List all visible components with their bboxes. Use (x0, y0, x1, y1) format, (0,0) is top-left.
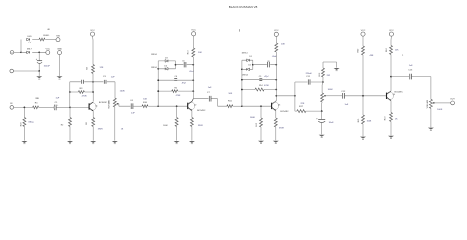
svg-text:BC549C: BC549C (395, 91, 404, 93)
ground (174, 141, 180, 144)
ground (258, 141, 264, 144)
svg-text:SUSTAIN: SUSTAIN (107, 100, 110, 109)
svg-text:.05uF: .05uF (189, 71, 195, 73)
ground (36, 76, 42, 79)
node junction pot top (322, 81, 324, 83)
svg-text:C6: C6 (175, 76, 178, 78)
svg-text:.05uF: .05uF (272, 56, 278, 58)
wire (133, 105, 142, 107)
wire (14, 106, 33, 108)
node junction (192, 64, 194, 66)
transistor Q3 BC549C (271, 101, 289, 113)
svg-text:C9: C9 (259, 76, 262, 78)
wire pot bottom (321, 102, 323, 111)
capacitor C9 47pf (259, 75, 269, 81)
capacitor C8 0.05uF (267, 56, 278, 68)
node VCC circle (45, 49, 50, 55)
wire diode box right rail (252, 60, 254, 69)
svg-text:BC549C: BC549C (99, 102, 108, 104)
jack OUT circle (450, 99, 455, 105)
node junction (192, 79, 194, 81)
svg-text:1uF: 1uF (208, 87, 212, 89)
svg-text:Q1: Q1 (95, 106, 97, 108)
wire right rail stage3 (272, 52, 276, 104)
wire (39, 106, 54, 108)
wire collector rail (92, 74, 94, 102)
capacitor C12 1uF (341, 91, 349, 106)
wire (23, 127, 25, 141)
resistor R18 12K (386, 46, 399, 55)
wire bass branch (295, 96, 322, 111)
wire emitter (191, 111, 193, 118)
svg-text:C8: C8 (267, 61, 270, 63)
svg-text:100K: 100K (367, 121, 372, 123)
svg-text:1uF: 1uF (131, 112, 135, 114)
node junction (92, 91, 94, 93)
resistor R9 390R (190, 118, 203, 127)
wire (21, 51, 46, 53)
wire (233, 105, 242, 107)
tick mark (238, 29, 240, 31)
resistor R1 39K (33, 98, 40, 109)
wire left rail stage1 (69, 82, 71, 108)
node junction (176, 105, 178, 107)
svg-text:1Meg: 1Meg (28, 122, 33, 124)
node VCC circle stage1 (90, 30, 95, 36)
svg-text:VCC: VCC (389, 30, 394, 32)
resistor RLED 4K (39, 29, 50, 41)
node junction (275, 89, 277, 91)
resistor R19 1K (385, 113, 399, 122)
wire (362, 36, 364, 46)
wire pot bottom (430, 108, 432, 127)
capacitor C10 electrolytic (316, 117, 334, 123)
node junction (69, 91, 71, 93)
resistor R5 390R (86, 118, 103, 131)
svg-text:470K: 470K (264, 85, 269, 87)
svg-text:1K: 1K (121, 129, 124, 131)
svg-text:2K2: 2K2 (327, 75, 331, 77)
svg-text:R10: R10 (143, 102, 148, 104)
svg-text:C4: C4 (130, 100, 134, 102)
svg-text:R13: R13 (188, 50, 190, 55)
wire (362, 124, 364, 136)
svg-text:R1: R1 (35, 102, 39, 104)
wire (275, 36, 277, 43)
wire (38, 52, 40, 60)
svg-text:R11: R11 (228, 101, 233, 103)
svg-text:R5: R5 (86, 121, 88, 124)
node junction (175, 64, 177, 66)
node junction (38, 70, 40, 72)
node junction Q1 base node (69, 107, 71, 109)
node junction (275, 64, 277, 66)
diode D2 1N914 (242, 65, 252, 77)
wire (176, 106, 178, 117)
svg-text:100K: 100K (437, 109, 443, 111)
wire to C3 (93, 82, 115, 98)
resistor R11 10K (227, 93, 233, 108)
svg-text:VCC: VCC (274, 30, 279, 32)
capacitor C7 1uF (207, 87, 212, 102)
node junction (241, 68, 243, 70)
jack IN circle (10, 103, 14, 109)
svg-text:470K: 470K (176, 95, 181, 97)
wire to C13 (391, 77, 431, 100)
svg-text:GND: GND (57, 49, 62, 51)
svg-text:10K: 10K (281, 44, 285, 46)
wire (32, 39, 39, 41)
wire (192, 36, 194, 48)
svg-text:1K: 1K (395, 118, 398, 120)
svg-text:C5: C5 (182, 61, 185, 63)
svg-text:1uF: 1uF (111, 77, 115, 79)
resistor R13 10K (188, 48, 203, 57)
wire (56, 106, 70, 108)
wire wiper (435, 102, 451, 104)
ground (360, 137, 366, 140)
jack DC input circle (10, 51, 14, 55)
node VCC circle stage3 (274, 30, 279, 36)
wire (321, 123, 323, 135)
potentiometer SUSTAIN 100K (107, 90, 125, 108)
node junction (157, 79, 159, 81)
node junction (275, 79, 277, 81)
wire (45, 39, 56, 41)
svg-text:1N914: 1N914 (151, 54, 158, 56)
wire (69, 107, 71, 117)
wire (260, 106, 262, 118)
node VCC circle bias (361, 30, 366, 36)
wire right rail stage2 (192, 57, 194, 99)
svg-text:39K: 39K (35, 98, 39, 100)
svg-text:VOLUME: VOLUME (427, 99, 429, 108)
svg-text:12K: 12K (100, 67, 104, 69)
wire (321, 111, 323, 119)
transistor Q2 BC549C (187, 99, 206, 112)
wire emitter (275, 111, 277, 119)
svg-text:12K: 12K (395, 50, 399, 52)
svg-text:BC549C: BC549C (280, 111, 289, 113)
svg-text:C3: C3 (103, 76, 107, 78)
svg-text:Q4: Q4 (393, 94, 395, 96)
wire diode box bottom (158, 68, 175, 70)
wire feedback rung R6 (158, 90, 193, 92)
capacitor C1 (54, 98, 60, 111)
wire (390, 36, 392, 45)
resistor R12 390R (274, 118, 284, 130)
svg-text:a: a (402, 55, 404, 57)
wire left rail stage2 (157, 61, 159, 106)
resistor R7 10K (275, 43, 286, 52)
svg-text:BC549C: BC549C (197, 110, 206, 112)
svg-text:+: + (316, 117, 318, 120)
ground (388, 136, 394, 139)
svg-text:VCC: VCC (361, 30, 366, 32)
node VCC circle collector (389, 30, 394, 36)
node junction (241, 79, 243, 81)
resistor R17 22K (297, 103, 306, 113)
wire collector tap to C7 (193, 99, 227, 107)
wire collector rail (390, 55, 392, 92)
svg-text:100K: 100K (163, 125, 168, 127)
svg-text:R18: R18 (386, 47, 388, 52)
ground (319, 135, 325, 138)
svg-text:R19: R19 (385, 116, 387, 121)
svg-text:10uF: 10uF (329, 122, 335, 124)
svg-text:C12: C12 (341, 91, 346, 93)
wire (59, 55, 61, 76)
wire wiper out (326, 95, 342, 97)
wire sustain bottom to ground (114, 107, 116, 141)
capacitor C11 220nF (306, 73, 313, 84)
capacitor C13 1uF (408, 65, 413, 79)
capacitor C3 1uF (103, 76, 115, 84)
diode LED (27, 36, 32, 43)
capacitor C15 100uF electrolytic (36, 58, 51, 67)
svg-text:4K: 4K (47, 29, 50, 31)
svg-text:10K: 10K (228, 93, 232, 95)
svg-text:R4: R4 (87, 66, 89, 69)
svg-text:47pf: 47pf (264, 75, 268, 78)
svg-text:R14: R14 (259, 85, 264, 87)
capacitor C6 47pf (174, 76, 186, 85)
diode D1 1N914 (242, 52, 253, 61)
svg-text:1uF: 1uF (345, 104, 349, 106)
wire (20, 40, 22, 53)
node junction (24, 107, 26, 109)
svg-text:1N914: 1N914 (242, 74, 249, 76)
node VCC circle stage2 (191, 30, 196, 36)
node junction (390, 76, 392, 78)
svg-text:R23: R23 (20, 122, 22, 127)
svg-text:D4: D4 (164, 66, 167, 68)
wire (390, 122, 392, 136)
svg-text:10K: 10K (143, 99, 147, 101)
resistor R23 1Meg (20, 118, 33, 127)
wire (14, 51, 21, 53)
wire diode box top (158, 60, 175, 62)
svg-text:VCC: VCC (191, 30, 196, 32)
svg-text:VCC: VCC (45, 49, 50, 51)
svg-text:22K: 22K (300, 103, 304, 105)
ground (189, 141, 195, 144)
wire (345, 95, 386, 97)
wire feedback rung C6 (158, 79, 193, 81)
resistor R3 470K (78, 88, 87, 97)
wire (276, 95, 295, 97)
svg-text:R3: R3 (80, 88, 84, 90)
svg-text:C13: C13 (408, 70, 413, 72)
wire (92, 36, 95, 64)
ground (273, 141, 279, 144)
wire diode box bottom (242, 68, 253, 70)
ground (334, 68, 340, 71)
wire emitter (390, 101, 392, 113)
svg-text:OUT: OUT (450, 99, 455, 101)
resistor R21 100K (358, 115, 372, 124)
wire feedback rung C9 (242, 79, 276, 81)
wire wiper (119, 104, 130, 106)
svg-text:1N914: 1N914 (242, 52, 249, 54)
diode D 5817 (27, 48, 33, 53)
resistor R20 43K (358, 46, 374, 57)
svg-text:100K: 100K (328, 89, 334, 91)
node junction (241, 89, 243, 91)
svg-text:Q3: Q3 (278, 104, 280, 106)
svg-text:D1: D1 (249, 56, 252, 58)
wire bias rail (362, 55, 364, 115)
ground (57, 76, 63, 79)
wire feedback rung R14 (242, 89, 276, 91)
diode D4 1N914 (151, 66, 168, 71)
svg-text:RLED: RLED (43, 35, 49, 37)
wire emitter (92, 111, 94, 118)
wire (275, 127, 277, 140)
node junction collector output (275, 95, 277, 97)
wire (148, 105, 158, 107)
transistor Q4 BC549C (386, 91, 403, 101)
svg-text:VCC: VCC (90, 30, 95, 32)
wire (38, 71, 40, 76)
node junction Q2 base node (157, 105, 159, 107)
wire (14, 64, 40, 71)
potentiometer TONE 100K (321, 82, 334, 102)
svg-text:1uF: 1uF (56, 98, 60, 100)
wire (92, 127, 94, 141)
wire pulldown (23, 107, 25, 117)
svg-text:C11: C11 (306, 76, 311, 78)
wire feedback rung cap (70, 81, 93, 83)
node junction (157, 90, 159, 92)
node SW circle (56, 36, 61, 42)
resistor R10 10K (142, 99, 148, 108)
node junction (92, 81, 94, 83)
wire base (70, 106, 89, 108)
svg-text:1N914: 1N914 (151, 67, 158, 69)
jack battery circle (10, 69, 14, 73)
resistor R8 100K (163, 118, 178, 127)
svg-text:LED: LED (27, 36, 32, 38)
wire base row (242, 105, 271, 107)
svg-text:D3: D3 (165, 57, 168, 59)
resistor R15 100K (250, 117, 263, 127)
svg-text:47pf: 47pf (182, 82, 186, 85)
wire (69, 127, 71, 141)
wire left rail stage3 (241, 60, 243, 106)
svg-text:R2: R2 (61, 124, 64, 126)
resistor R6 470K (172, 88, 181, 98)
svg-text:R20: R20 (358, 48, 360, 53)
node GND circle (57, 49, 62, 55)
resistor R4 12K (87, 65, 104, 74)
node junction (38, 51, 40, 53)
capacitor C5 0.05uF (182, 61, 195, 73)
diode D3 1N914 (151, 54, 169, 62)
ground (67, 141, 73, 144)
wire (176, 64, 194, 66)
svg-text:Q2: Q2 (194, 104, 196, 106)
svg-text:10K: 10K (198, 52, 202, 54)
wire treble branch (295, 82, 323, 96)
svg-text:470K: 470K (82, 95, 88, 97)
svg-text:100K: 100K (120, 90, 126, 92)
ground (21, 141, 27, 144)
ground (112, 141, 118, 144)
ground (428, 128, 434, 131)
node junction (260, 105, 262, 107)
wire (253, 64, 276, 66)
capacitor C2 (82, 80, 84, 84)
node junction (192, 90, 194, 92)
svg-text:390R: 390R (279, 128, 284, 130)
svg-text:+: + (57, 104, 59, 106)
node junction tone input (294, 95, 296, 97)
svg-text:390R: 390R (98, 129, 103, 131)
resistor R16 2K2 to ground (319, 62, 336, 82)
svg-text:220nF: 220nF (306, 73, 313, 75)
wire diode box top (242, 59, 253, 61)
svg-text:100uF: 100uF (44, 65, 51, 67)
node junction Q3 base node (241, 105, 243, 107)
svg-text:R21: R21 (358, 118, 360, 123)
svg-text:5817: 5817 (27, 48, 33, 50)
resistor R2 (61, 118, 72, 127)
node junction (252, 64, 254, 66)
transistor Q1 BC549C (89, 102, 108, 111)
capacitor C4 1uF (130, 100, 135, 114)
svg-text:SW: SW (56, 36, 60, 38)
svg-text:C7: C7 (207, 92, 211, 94)
svg-text:R15: R15 (256, 122, 258, 127)
wire (176, 127, 178, 141)
wire base row (158, 105, 187, 107)
svg-text:390R: 390R (198, 125, 203, 127)
wire (260, 127, 262, 140)
svg-text:R16: R16 (319, 72, 321, 77)
svg-text:BLACK RUSSIAN V8: BLACK RUSSIAN V8 (229, 5, 258, 9)
resistor R14 470K (255, 85, 270, 91)
potentiometer VOLUME 100K (427, 99, 443, 111)
svg-text:100K: 100K (250, 117, 256, 119)
node junction (157, 68, 159, 70)
node junction Q4 base node (362, 95, 364, 97)
svg-text:D2: D2 (248, 65, 251, 67)
wire diode box right rail (175, 61, 177, 69)
node junction (20, 51, 22, 53)
svg-text:43K: 43K (370, 55, 374, 57)
ground (90, 141, 96, 144)
svg-text:1uF: 1uF (409, 65, 413, 67)
wire feedback rung resistor (70, 91, 93, 93)
svg-text:IN: IN (10, 103, 13, 105)
svg-text:R17: R17 (299, 106, 304, 108)
wire (191, 127, 193, 141)
node junction pot bottom (321, 110, 323, 112)
